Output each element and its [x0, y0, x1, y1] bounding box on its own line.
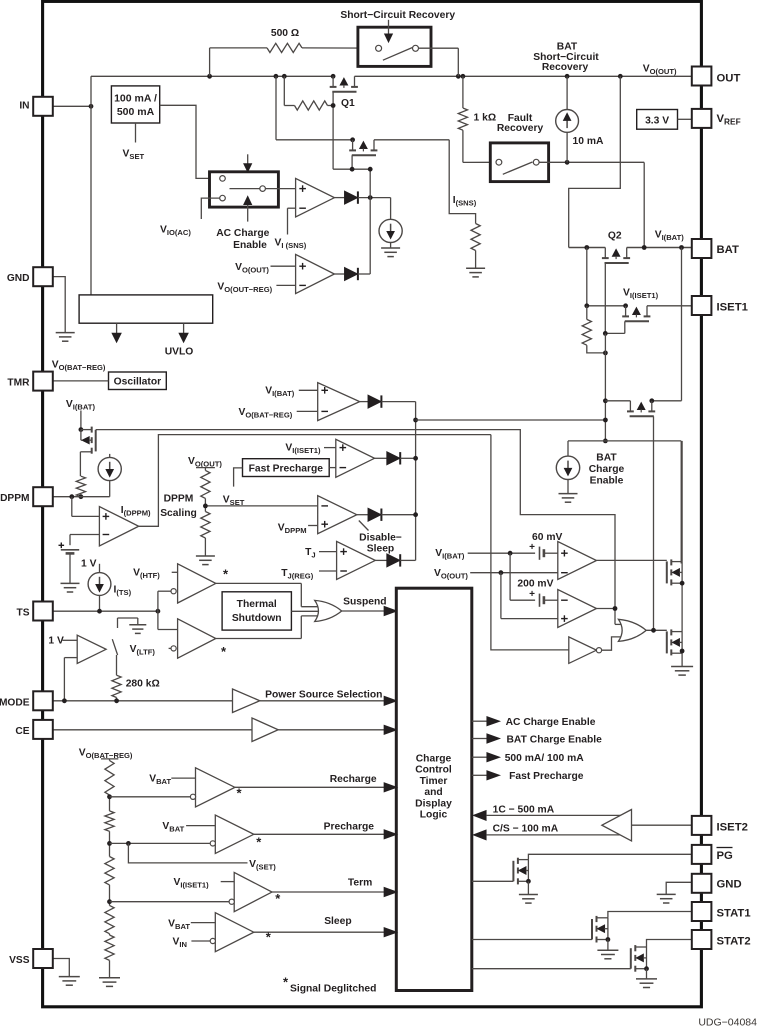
- svg-text:UVLO: UVLO: [165, 347, 194, 358]
- svg-text:1 V: 1 V: [81, 558, 97, 569]
- svg-text:100 mA /: 100 mA /: [114, 92, 157, 104]
- svg-text:CE: CE: [15, 726, 29, 737]
- svg-text:Q2: Q2: [608, 231, 622, 242]
- svg-text:IN: IN: [19, 101, 29, 112]
- svg-text:Q1: Q1: [341, 98, 355, 109]
- svg-text:Charge: Charge: [589, 464, 625, 475]
- svg-text:Enable: Enable: [233, 240, 267, 251]
- svg-text:PG: PG: [717, 850, 734, 862]
- svg-text:Term: Term: [348, 878, 372, 889]
- svg-text:Power Source Selection: Power Source Selection: [265, 690, 382, 701]
- svg-text:10 mA: 10 mA: [573, 136, 604, 147]
- svg-text:OUT: OUT: [717, 73, 741, 85]
- svg-text:500 mA/ 100 mA: 500 mA/ 100 mA: [505, 753, 585, 764]
- svg-text:Thermal: Thermal: [237, 599, 277, 610]
- svg-text:Suspend: Suspend: [343, 596, 386, 607]
- svg-text:Fast Precharge: Fast Precharge: [509, 771, 584, 782]
- svg-text:VSS: VSS: [9, 955, 30, 966]
- svg-text:Recovery: Recovery: [542, 62, 589, 73]
- svg-text:280 kΩ: 280 kΩ: [126, 679, 160, 690]
- svg-text:GND: GND: [7, 273, 30, 284]
- svg-text:1C − 500 mA: 1C − 500 mA: [493, 804, 555, 815]
- svg-text:AC Charge Enable: AC Charge Enable: [506, 717, 596, 728]
- svg-text:Timer: Timer: [420, 776, 448, 787]
- svg-text:Display: Display: [415, 798, 452, 809]
- svg-text:ISET1: ISET1: [717, 302, 748, 314]
- svg-text:Short−Circuit Recovery: Short−Circuit Recovery: [340, 10, 455, 21]
- svg-text:AC Charge: AC Charge: [216, 228, 269, 239]
- svg-text:500 Ω: 500 Ω: [271, 28, 299, 39]
- svg-text:200 mV: 200 mV: [517, 579, 553, 590]
- svg-text:DPPM: DPPM: [0, 493, 29, 504]
- svg-text:Recharge: Recharge: [330, 774, 377, 785]
- svg-text:Oscillator: Oscillator: [114, 377, 162, 388]
- svg-text:BAT Charge Enable: BAT Charge Enable: [507, 734, 603, 745]
- svg-text:BAT: BAT: [557, 41, 578, 52]
- svg-text:Control: Control: [415, 765, 452, 776]
- svg-text:ISET2: ISET2: [717, 822, 748, 834]
- svg-text:1 V: 1 V: [48, 636, 64, 647]
- svg-text:Logic: Logic: [420, 810, 448, 821]
- svg-text:Precharge: Precharge: [324, 821, 375, 832]
- svg-text:Enable: Enable: [590, 476, 624, 487]
- svg-text:BAT: BAT: [717, 244, 739, 256]
- svg-text:Sleep: Sleep: [367, 543, 394, 554]
- svg-text:UDG−04084: UDG−04084: [698, 1017, 757, 1027]
- svg-text:+: +: [529, 589, 535, 600]
- svg-text:3.3 V: 3.3 V: [645, 116, 669, 127]
- svg-text:Signal Deglitched: Signal Deglitched: [290, 984, 376, 995]
- svg-text:and: and: [424, 787, 442, 798]
- svg-text:Fast Precharge: Fast Precharge: [249, 464, 324, 475]
- svg-text:Scaling: Scaling: [160, 508, 197, 519]
- svg-text:BAT: BAT: [596, 453, 617, 464]
- svg-text:1 kΩ: 1 kΩ: [474, 113, 497, 124]
- svg-text:Charge: Charge: [416, 754, 452, 765]
- svg-text:Recovery: Recovery: [497, 123, 544, 134]
- svg-text:Shutdown: Shutdown: [232, 613, 282, 624]
- svg-text:STAT1: STAT1: [717, 908, 751, 920]
- svg-text:GND: GND: [717, 879, 742, 891]
- svg-text:Disable−: Disable−: [359, 532, 402, 543]
- svg-text:500 mA: 500 mA: [117, 106, 155, 118]
- svg-text:STAT2: STAT2: [717, 936, 751, 948]
- svg-text:+: +: [529, 542, 535, 553]
- svg-text:C/S − 100 mA: C/S − 100 mA: [493, 824, 559, 835]
- svg-text:TS: TS: [16, 608, 29, 619]
- svg-text:MODE: MODE: [0, 698, 30, 709]
- svg-text:TMR: TMR: [7, 378, 30, 389]
- svg-text:DPPM: DPPM: [164, 494, 194, 505]
- svg-text:Sleep: Sleep: [324, 916, 351, 927]
